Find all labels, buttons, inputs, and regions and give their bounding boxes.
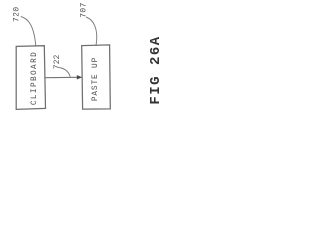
leader from 707 to paste up box <box>86 17 97 46</box>
svg-text:FIG 26A: FIG 26A <box>148 35 164 104</box>
leader from 722 to arrow <box>59 68 70 77</box>
svg-text:720: 720 <box>13 6 21 22</box>
svg-text:CLIPBOARD: CLIPBOARD <box>31 51 39 105</box>
svg-text:PASTE UP: PASTE UP <box>92 57 100 101</box>
clipboard box 720 <box>16 46 45 110</box>
arrowhead <box>77 75 83 79</box>
leader from 720 to clipboard box <box>21 17 36 47</box>
svg-text:722: 722 <box>54 54 62 69</box>
arrow 722 wire <box>45 76 77 78</box>
paste up box 707 <box>82 45 111 109</box>
svg-text:707: 707 <box>81 2 89 18</box>
